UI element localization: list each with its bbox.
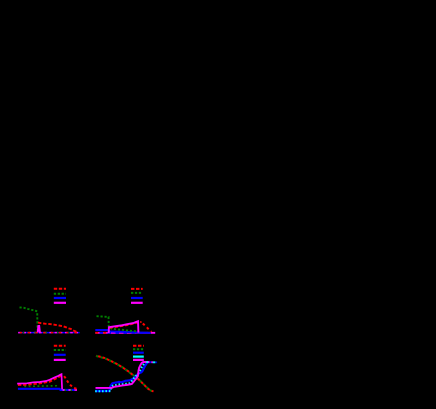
B legend magenta solid (131, 302, 143, 304)
C baseline mixed magenta (63, 389, 78, 391)
B blue left segment (95, 330, 148, 333)
D plateau blue segment 1 (149, 361, 151, 363)
D legend cyan solid (133, 356, 144, 358)
D magenta curve (96, 362, 150, 388)
D red descending (96, 356, 154, 392)
C red falling tail (64, 376, 77, 389)
D green descending (96, 356, 152, 391)
A baseline red dashes (20, 332, 80, 334)
D plateau cyan segment 1 (146, 361, 148, 363)
B bottom blue dashes (100, 332, 156, 334)
B legend blue solid (131, 297, 143, 299)
A baseline blue (18, 332, 79, 334)
D blue bottom segment (95, 390, 110, 392)
C legend blue solid (54, 354, 66, 356)
D cyan dotted (95, 362, 146, 391)
A baseline magenta dashes (18, 332, 79, 334)
A green curve (20, 307, 38, 330)
B legend red dashed (131, 288, 143, 290)
D legend red dashed (133, 345, 144, 347)
C legend magenta solid (54, 359, 66, 361)
C magenta curve (17, 374, 62, 389)
C green dots (24, 385, 58, 388)
B bottom magenta line (95, 332, 155, 334)
B red falling tail (143, 324, 152, 332)
B red curve (110, 322, 142, 328)
A red curve (38, 323, 77, 332)
C red curve (18, 375, 63, 385)
D plateau magenta segment 2 (151, 361, 152, 363)
A legend green dashdot (54, 293, 66, 295)
D plateau blue segment 2 (155, 361, 157, 363)
D legend magenta solid (133, 359, 144, 361)
D legend blue solid (133, 352, 144, 354)
D legend green dashdot (133, 348, 144, 350)
D plateau cyan segment 2 (153, 361, 156, 363)
A magenta spike (38, 326, 40, 332)
A legend blue solid (54, 297, 66, 299)
C baseline mixed green (65, 389, 75, 391)
B magenta curve (109, 321, 139, 333)
B legend green dashdot (131, 292, 143, 294)
A legend magenta solid (54, 302, 66, 304)
A baseline green dots (23, 332, 80, 334)
B green curve (97, 316, 138, 331)
A legend red dashed (54, 288, 66, 290)
D blue curve (95, 362, 149, 391)
C legend green dashdot (54, 349, 66, 351)
C blue curve (18, 389, 75, 390)
B bottom red dashes (95, 332, 108, 334)
C legend red dashed (54, 345, 66, 347)
